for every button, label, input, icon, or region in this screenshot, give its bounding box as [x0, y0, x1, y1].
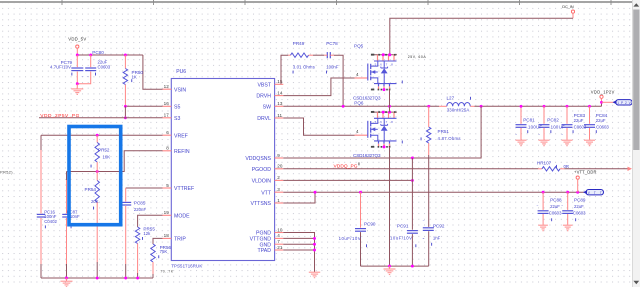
wire VTTREF: [126, 187, 163, 189]
pin 4 gate PQ5: [355, 77, 368, 79]
svg-text:70..7K: 70..7K: [160, 270, 174, 274]
node VREF/PR52 junction: [96, 134, 99, 137]
node VDDQSNS/PC91 junction: [411, 157, 414, 160]
ground IC pins: [309, 272, 320, 278]
svg-text:1: 1: [277, 198, 280, 203]
svg-text:14: 14: [277, 90, 283, 95]
svg-text:L27: L27: [447, 95, 455, 100]
svg-text:PC90: PC90: [364, 221, 376, 226]
wire PQ5 source to SW: [389, 90, 391, 107]
svg-text:HR107: HR107: [537, 161, 552, 166]
resistor PR51: [427, 127, 431, 143]
resistor PR52 leads: [96, 135, 98, 142]
resistor PR50 leads: [124, 55, 126, 69]
svg-text:4: 4: [356, 129, 359, 134]
svg-text:DRVL: DRVL: [257, 116, 271, 122]
svg-text:4: 4: [277, 233, 280, 238]
resistor PR50: [123, 69, 127, 85]
capacitor PC84: [589, 106, 591, 124]
svg-text:SW: SW: [263, 104, 271, 110]
svg-text:=: =: [423, 237, 425, 241]
wire DC_IN: [572, 13, 574, 18]
svg-text:PGOOD: PGOOD: [252, 167, 272, 173]
svg-text:PR54: PR54: [85, 187, 97, 192]
capacitor PC16: [36, 214, 46, 218]
wire ground bus mid: [361, 265, 429, 267]
power +VTT_DDR: [576, 176, 579, 179]
svg-text:C0603: C0603: [98, 64, 111, 69]
svg-text:10: 10: [277, 227, 283, 232]
wire PGND tie: [283, 233, 314, 273]
node PC79/PC80 ground join: [76, 82, 79, 85]
svg-text:15: 15: [277, 79, 283, 84]
svg-text:8: 8: [166, 146, 169, 151]
power VDD_1P2V: [600, 95, 603, 98]
capacitor PC83: [566, 106, 568, 124]
resistor PR49 leads: [288, 54, 290, 56]
resistor HR107: [542, 167, 560, 171]
svg-text:17: 17: [164, 113, 170, 118]
op-amp U-PU6 body TPS51716RUK: [171, 79, 274, 261]
resistor HR107 leads: [538, 168, 542, 170]
node PC81 rail junction: [520, 105, 523, 108]
capacitor PC82: [543, 106, 545, 124]
svg-text:MODE: MODE: [174, 213, 190, 219]
resistor PR52: [95, 143, 99, 163]
ruler ticks: [61, 0, 63, 5]
resistor PR54: [95, 181, 99, 202]
svg-text:S5: S5: [174, 104, 180, 110]
off-page connector DDR3_VTT: [586, 190, 604, 195]
svg-text:PR52: PR52: [98, 147, 110, 152]
svg-text:PQ6: PQ6: [354, 100, 364, 105]
svg-text:~: ~: [515, 133, 517, 137]
wire PR49-PC78: [313, 54, 324, 56]
inductor L27: [447, 103, 470, 107]
wire to off-page capsule: [602, 101, 616, 103]
resistor PR56 lead: [152, 262, 154, 274]
svg-text:10uF/10V: 10uF/10V: [339, 236, 361, 241]
svg-text:PC78: PC78: [326, 41, 338, 46]
svg-text:4: 4: [356, 72, 359, 77]
svg-text:PC80: PC80: [92, 50, 104, 55]
node S5 junction: [124, 105, 127, 108]
node VDD_5V rail junctions: [76, 54, 79, 57]
svg-text:REFIN: REFIN: [174, 149, 190, 155]
wire SW: [283, 105, 439, 107]
capacitor PC92: [422, 227, 434, 231]
svg-text:100UF: 100UF: [551, 124, 565, 129]
svg-text:PR51: PR51: [438, 129, 450, 134]
svg-text:16: 16: [164, 101, 170, 106]
inductor L27 leads: [439, 105, 447, 107]
svg-text:VSIN: VSIN: [174, 87, 186, 93]
capacitor PC92 wire2: [428, 231, 430, 266]
svg-text:TRIP: TRIP: [174, 237, 186, 243]
svg-text:VDD_5V: VDD_5V: [68, 37, 86, 42]
resistor PR56: [151, 244, 155, 262]
svg-text:PC89: PC89: [574, 197, 586, 202]
node VLDOIN end junction: [411, 179, 414, 182]
wire DRVL: [283, 118, 354, 135]
capacitor PC89: [567, 192, 569, 210]
node SW junctions: [342, 105, 345, 108]
selection highlight box: [69, 127, 121, 225]
svg-text:PC92: PC92: [433, 224, 445, 229]
wire VDDQSNS sense drop: [283, 106, 481, 158]
svg-text:PC88: PC88: [550, 197, 562, 202]
svg-text:6: 6: [166, 130, 169, 135]
svg-text:VDD_2P5V_PG: VDD_2P5V_PG: [40, 113, 79, 119]
svg-text:(PR52): (PR52): [0, 171, 13, 175]
svg-text:220nF: 220nF: [134, 207, 147, 212]
wire VLDOIN: [283, 179, 412, 181]
svg-text:22uF: 22uF: [550, 204, 560, 209]
svg-text:13: 13: [277, 101, 283, 106]
capacitor PC85 wire: [125, 188, 127, 202]
svg-text:1K: 1K: [132, 74, 137, 79]
wire VREF to PC16: [40, 135, 42, 150]
svg-text:C0603: C0603: [596, 124, 609, 129]
svg-text:VDD_1P2V: VDD_1P2V: [591, 90, 615, 95]
capacitor PC78 leads: [324, 54, 327, 56]
capacitor PC90 wire: [360, 192, 362, 228]
power VDD_5V: [76, 45, 79, 48]
tolerance mark PQ5: [401, 81, 404, 84]
wire VSIN branch: [143, 55, 163, 89]
svg-text:S3: S3: [174, 116, 180, 122]
svg-text:4.87 Ohms: 4.87 Ohms: [438, 136, 461, 141]
wire VBST: [281, 55, 288, 84]
node S3 junction: [124, 116, 127, 119]
resistor PR51 leads: [428, 106, 430, 127]
svg-text:1nF: 1nF: [433, 235, 441, 240]
resistor PR55 leads: [137, 244, 139, 274]
svg-text:12k: 12k: [143, 231, 151, 236]
ground on left bus: [66, 278, 68, 281]
node VDD_1P2V junction: [600, 101, 603, 104]
resistor PR54 leads: [96, 172, 98, 181]
svg-text:VDDQ_PG: VDDQ_PG: [334, 164, 358, 170]
svg-text:20K: 20K: [91, 199, 99, 204]
wire GND: [283, 243, 314, 245]
resistor PR55: [135, 227, 139, 244]
svg-text:PC91: PC91: [397, 224, 409, 229]
svg-text:PU6: PU6: [176, 69, 186, 75]
svg-text:VREF: VREF: [174, 133, 188, 139]
svg-text:C0603: C0603: [573, 210, 586, 215]
wire MODE: [138, 215, 163, 227]
svg-text:VTTREF: VTTREF: [174, 186, 194, 192]
resistor PR49: [291, 53, 309, 57]
wire +VTT_DDR stem: [577, 179, 579, 192]
svg-text:C0603: C0603: [549, 210, 562, 215]
capacitor PC88: [542, 192, 544, 210]
svg-text:100UF: 100UF: [528, 124, 542, 129]
svg-text:VDDQSNS: VDDQSNS: [245, 156, 271, 162]
svg-text:CSD16327Q3: CSD16327Q3: [353, 153, 381, 158]
capacitor PC81: [520, 106, 522, 124]
svg-text:PC81: PC81: [523, 118, 535, 123]
capacitor PC79: [71, 67, 84, 71]
svg-text:25V, 60A: 25V, 60A: [408, 55, 427, 59]
capacitor PC90: [354, 228, 366, 232]
IC left pins (VSIN S5 S3 VREF REFIN VTTREF MODE TRIP): [163, 88, 172, 90]
capacitor PC80: [85, 67, 97, 71]
svg-text:330nH/25A: 330nH/25A: [447, 107, 470, 112]
off-page connector DDR3_1P2V: [616, 100, 633, 105]
capacitor PC87: [62, 214, 72, 218]
IC right pins (VBST DRVH SW DRVL VDDQSNS PGOOD VLDOIN VTT VTTSNS PGND VTTGND GND TPAD): [275, 83, 284, 85]
node bus junctions: [65, 277, 68, 280]
scrollbar: [633, 0, 640, 287]
svg-text:22uF: 22uF: [596, 118, 606, 123]
svg-text:C0402: C0402: [44, 219, 57, 224]
svg-text:~: ~: [584, 133, 586, 137]
capacitor PC87 wire: [66, 172, 68, 181]
svg-text:DC_IN: DC_IN: [562, 4, 574, 9]
tolerance mark PQ6: [401, 141, 404, 144]
pin 4 gate PQ6: [355, 134, 368, 136]
svg-text:~: ~: [561, 204, 563, 208]
svg-text:4.7UF/10V: 4.7UF/10V: [50, 65, 71, 70]
power DC_IN: [571, 10, 574, 13]
capacitor PC91: [406, 230, 418, 234]
capacitor PC91 wire: [411, 158, 413, 230]
wire VTTSNS: [283, 192, 315, 203]
wire VREF: [41, 134, 163, 136]
node REFIN divider junction: [96, 170, 99, 173]
transistor Q-PQ6 CSD16327Q3: [374, 111, 397, 113]
svg-text:~: ~: [423, 219, 425, 223]
wire VTTGND: [283, 237, 314, 239]
wire VDDQ rail: [475, 105, 602, 107]
node VDDQ rail junctions: [480, 105, 483, 108]
svg-text:TPS51716RUK: TPS51716RUK: [171, 263, 202, 268]
wire PC78 to SW: [334, 55, 343, 106]
wire PGOOD out: [565, 168, 630, 170]
transistor Q-PQ5 CSD16327Q3: [374, 54, 397, 56]
wire PR51 to PC92: [428, 155, 430, 227]
svg-text:+VTT_DDR: +VTT_DDR: [574, 170, 597, 175]
wire PQ6 source to ground bus: [389, 147, 391, 266]
svg-text:PQ5: PQ5: [354, 43, 364, 48]
wire TPAD: [283, 249, 314, 251]
svg-text:18: 18: [164, 233, 170, 238]
svg-text:PC82: PC82: [547, 118, 559, 123]
svg-text:20: 20: [277, 164, 283, 169]
svg-text:7: 7: [277, 239, 280, 244]
ruler line: [0, 1, 640, 3]
svg-text:10nF: 10nF: [70, 214, 80, 219]
wire VDD_5V stem: [76, 48, 78, 55]
svg-text:3.01 Ohms: 3.01 Ohms: [293, 65, 315, 70]
svg-text:VBST: VBST: [257, 82, 271, 88]
svg-text:DRVH: DRVH: [256, 94, 271, 100]
wire VDD_1P2V stem: [601, 98, 603, 102]
wire S5-S3 tie: [124, 106, 126, 118]
svg-text:~: ~: [87, 75, 89, 79]
svg-text:12: 12: [164, 84, 170, 89]
wire DRVH: [283, 78, 354, 96]
svg-text:PR49: PR49: [293, 41, 305, 46]
svg-text:100nF: 100nF: [326, 65, 339, 70]
node VTT junctions: [314, 191, 317, 194]
capacitor PC85: [120, 202, 132, 206]
svg-text:C0603: C0603: [574, 124, 587, 129]
svg-text:VLDOIN: VLDOIN: [252, 179, 272, 185]
node DC_IN to PQ5 drain: [388, 53, 391, 56]
svg-text:~: ~: [561, 133, 563, 137]
svg-text:19: 19: [164, 210, 170, 215]
wire VTT: [283, 191, 584, 193]
wire S5: [125, 105, 162, 107]
svg-text:21: 21: [277, 245, 283, 250]
wire VDD_2P5V_PG (S3 net): [39, 117, 163, 119]
capacitor PC79 leads: [76, 55, 78, 68]
wire ground bus left: [41, 277, 153, 279]
wire SW to PQ6 drain: [389, 106, 391, 112]
wire PGOOD: [283, 168, 538, 170]
svg-text:~: ~: [82, 75, 84, 79]
svg-text:3: 3: [277, 187, 280, 192]
svg-text:75K: 75K: [160, 249, 168, 254]
svg-text:TPAD: TPAD: [258, 248, 272, 254]
svg-text:10uF/10V: 10uF/10V: [390, 235, 412, 240]
capacitor PC78: [327, 52, 332, 59]
svg-text:~: ~: [538, 133, 540, 137]
svg-text:VTTSNS: VTTSNS: [251, 201, 272, 207]
svg-text:VTT: VTT: [588, 191, 602, 195]
svg-text:22uF: 22uF: [574, 204, 584, 209]
svg-text:22uF: 22uF: [574, 118, 584, 123]
svg-text:9: 9: [277, 153, 280, 158]
svg-text:VTT: VTT: [261, 190, 272, 196]
node mid bus junctions: [388, 265, 391, 268]
svg-text:~: ~: [537, 204, 539, 208]
ground mid bus: [389, 266, 391, 269]
svg-text:10K: 10K: [103, 155, 111, 160]
node ground tie junctions: [313, 237, 316, 240]
ground below PC79: [76, 84, 78, 89]
wire VDD_5V rail: [77, 54, 143, 56]
svg-text:PC85: PC85: [134, 201, 146, 206]
svg-text:2: 2: [277, 175, 280, 180]
svg-text:11: 11: [277, 113, 282, 118]
svg-text:5: 5: [166, 183, 169, 188]
wire REFIN: [67, 151, 163, 172]
capacitor PC80 leads: [90, 55, 92, 68]
wire TRIP: [153, 238, 163, 244]
